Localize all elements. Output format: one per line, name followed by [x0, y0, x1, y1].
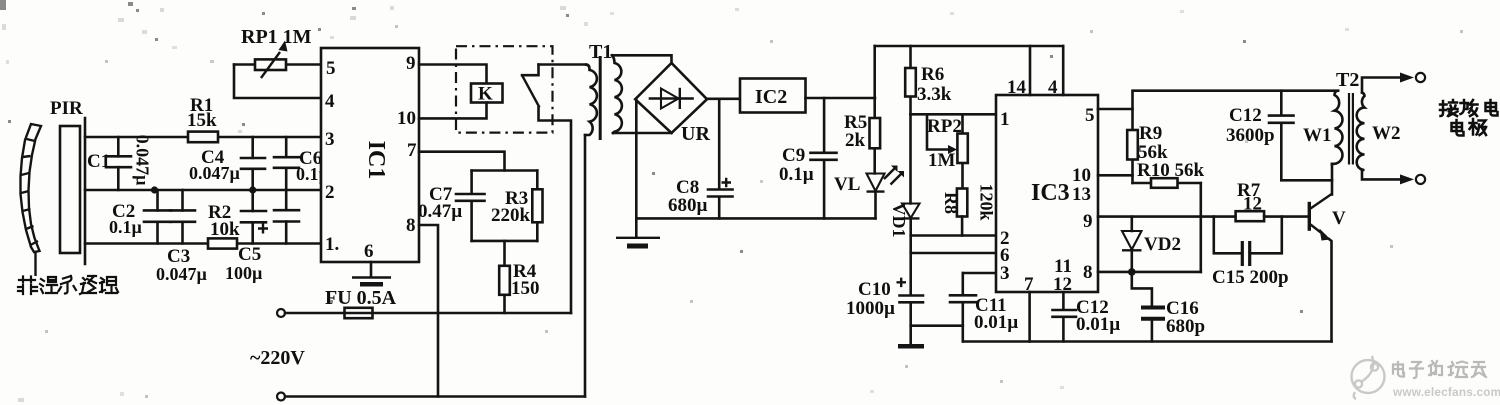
wire IC3 pin7 stub [1028, 292, 1031, 342]
svg-text:0.01µ: 0.01µ [974, 312, 1018, 333]
resistor R5 [844, 98, 880, 174]
svg-text:12: 12 [1243, 194, 1262, 215]
svg-text:4: 4 [325, 91, 335, 112]
wire IC3 pin1 row [911, 113, 997, 116]
capacitor C5 [225, 190, 268, 283]
svg-text:3600p: 3600p [1226, 125, 1275, 146]
fresnel lens [21, 124, 42, 276]
wire IC2 output [806, 97, 876, 100]
wire W2 bottom lead to terminal [1362, 170, 1425, 184]
svg-text:14: 14 [1007, 77, 1027, 98]
svg-text:C15 200p: C15 200p [1212, 267, 1289, 288]
capacitor C4 [189, 137, 265, 190]
svg-text:6: 6 [364, 241, 374, 262]
电 [1452, 120, 1464, 136]
svg-text:V: V [1332, 208, 1346, 229]
svg-text:15k: 15k [187, 110, 217, 131]
wire IC1 pin10 to relay coil [419, 103, 487, 119]
resistor R6 [905, 46, 952, 114]
label 菲涅尔透镜 [18, 276, 118, 294]
fuse FU 0.5A [285, 287, 571, 318]
svg-text:100µ: 100µ [225, 263, 263, 283]
T2 winding W1 [1332, 91, 1342, 164]
svg-text:9: 9 [1083, 211, 1093, 232]
capacitor C8 [668, 99, 733, 219]
wire W2 top lead to terminal [1362, 73, 1425, 93]
svg-text:R8: R8 [941, 192, 961, 214]
svg-text:9: 9 [406, 53, 416, 74]
capacitor C1 [87, 135, 152, 190]
wire riser R5 column [873, 46, 876, 98]
PIR element line [84, 118, 87, 264]
svg-text:3.3k: 3.3k [917, 84, 952, 105]
T1 secondary top lead [612, 55, 672, 63]
svg-text:10: 10 [1072, 165, 1091, 186]
svg-text:C1: C1 [87, 151, 110, 172]
wire IC3 pin3 row [963, 272, 996, 275]
T1 secondary bottom lead [613, 132, 672, 135]
svg-text:680p: 680p [1166, 316, 1205, 337]
svg-text:5: 5 [326, 58, 336, 79]
terminal 220V line2 [277, 393, 285, 401]
wire pin7 to RC box [419, 152, 505, 171]
resistor R4 [499, 241, 539, 313]
svg-text:5: 5 [1085, 105, 1095, 126]
svg-text:R6: R6 [921, 64, 944, 85]
svg-text:C9: C9 [782, 145, 805, 166]
wire IC1 pin9 to relay coil [419, 65, 487, 84]
svg-text:RP1 1M: RP1 1M [241, 26, 312, 48]
wire IC3 pin4 stub [1062, 46, 1065, 95]
wire R10 to pin8 row [1200, 183, 1203, 272]
svg-text:IC2: IC2 [755, 86, 787, 108]
svg-text:IC3: IC3 [1031, 180, 1070, 206]
svg-text:1000µ: 1000µ [846, 298, 895, 319]
wire 220V bottom row [285, 395, 585, 398]
svg-text:3: 3 [1000, 263, 1010, 284]
svg-text:R10 56k: R10 56k [1137, 160, 1204, 181]
ground IC1 pin6 [352, 262, 391, 287]
svg-text:2: 2 [325, 182, 335, 203]
svg-text:0.47µ: 0.47µ [418, 201, 462, 222]
resistor R2 [208, 238, 237, 248]
svg-text:C5: C5 [238, 244, 261, 265]
svg-text:0.047µ: 0.047µ [156, 264, 208, 284]
T2 core [1349, 93, 1353, 165]
svg-text:10k: 10k [210, 219, 240, 240]
ground UR [616, 99, 660, 248]
capacitor C10 [846, 278, 924, 349]
capacitor C12 (0.01u) [1053, 292, 1121, 342]
svg-text:~220V: ~220V [250, 347, 305, 369]
wire C10-C11 ground link [911, 324, 963, 327]
svg-text:1: 1 [1000, 109, 1010, 130]
svg-text:R9: R9 [1139, 123, 1162, 144]
svg-text:T2: T2 [1336, 69, 1359, 91]
node dot pin8/VD2 [1128, 268, 1136, 276]
wire IC3 pin8 row [1098, 271, 1201, 274]
svg-text:VL: VL [834, 174, 860, 195]
IC IC3 [996, 77, 1098, 295]
wire IC3 pin9 row [1098, 215, 1236, 218]
svg-text:1M: 1M [928, 150, 956, 171]
svg-text:C12: C12 [1229, 105, 1262, 126]
op-amp IC1 [321, 48, 419, 262]
wire IC3 pin10/13 row [1098, 174, 1133, 177]
wire ground rail mid [636, 217, 875, 220]
svg-text:0.1µ: 0.1µ [779, 164, 814, 185]
node dot pin2/C4 [249, 186, 256, 193]
resistor R10 [1133, 160, 1205, 188]
capacitor C3 [156, 190, 208, 284]
svg-text:3: 3 [325, 129, 335, 150]
label 接放电 电极 [1440, 100, 1498, 136]
resistor R1 [188, 132, 218, 143]
svg-text:220k: 220k [491, 205, 531, 226]
regulator IC2 [740, 79, 806, 113]
svg-text:2k: 2k [845, 130, 866, 151]
T1 primary bottom lead [584, 135, 587, 397]
svg-text:680µ: 680µ [668, 195, 708, 216]
svg-text:8: 8 [1083, 262, 1093, 283]
PIR sensor body [60, 126, 80, 253]
svg-text:IC1: IC1 [363, 141, 389, 180]
relay boundary dash-dot box [456, 46, 553, 132]
node dot pin2/C2 [151, 186, 158, 193]
svg-text:UR: UR [681, 123, 710, 145]
capacitor C2 [109, 190, 171, 244]
电 [1486, 100, 1498, 116]
capacitor C11 [950, 273, 1018, 342]
capacitor C9 [779, 98, 837, 218]
transformer T2 [1303, 69, 1401, 170]
LED VL [834, 166, 904, 219]
svg-text:8: 8 [406, 215, 416, 236]
T1 secondary winding [612, 55, 622, 133]
diode VD1 [889, 114, 920, 295]
svg-text:120k: 120k [977, 183, 997, 220]
transistor V [1309, 164, 1346, 342]
bridge rectifier UR [635, 63, 710, 145]
T2 winding W2 [1357, 93, 1365, 171]
wire pin3 row [85, 136, 321, 139]
svg-text:0.1µ: 0.1µ [109, 217, 143, 237]
resistor R8 [941, 183, 997, 235]
svg-text:C10: C10 [858, 279, 891, 300]
svg-text:VD1: VD1 [889, 203, 909, 238]
svg-text:10: 10 [397, 108, 416, 129]
svg-text:150: 150 [511, 278, 540, 299]
svg-text:VD2: VD2 [1144, 234, 1181, 255]
resistor R9 [1127, 109, 1168, 183]
wire switch to T1 top [539, 63, 587, 66]
wire top rail to IC3 supply [875, 45, 1063, 48]
capacitor unlabeled (right of C5) [274, 190, 299, 244]
svg-text:W2: W2 [1372, 123, 1401, 144]
capacitor C16 [1132, 272, 1205, 342]
potentiometer RP2 [927, 114, 968, 188]
wire IC3 pin2 row [911, 234, 996, 237]
接 [1440, 100, 1458, 116]
放 [1461, 100, 1478, 116]
potentiometer RP1 [234, 26, 321, 98]
relay coil K [471, 84, 503, 105]
diode VD2 [1122, 217, 1181, 272]
svg-text:1.: 1. [325, 234, 339, 255]
T1 primary winding [585, 65, 597, 136]
svg-text:7: 7 [407, 140, 417, 161]
wire UR to IC2 [707, 98, 740, 101]
svg-text:13: 13 [1072, 184, 1091, 205]
svg-text:W1: W1 [1303, 125, 1332, 146]
wire pin1 row [85, 242, 321, 245]
capacitor C6 [274, 137, 330, 190]
terminal 220V line1 [277, 309, 285, 317]
capacitor C15 bypass [1212, 217, 1289, 288]
wire IC3 pin6 row [911, 252, 996, 255]
svg-text:0.047µ: 0.047µ [132, 135, 152, 187]
wire pin2 row [85, 189, 321, 192]
svg-text:FU 0.5A: FU 0.5A [325, 287, 397, 309]
svg-text:RP2: RP2 [927, 116, 962, 137]
capacitor C7 / resistor R3 box [418, 171, 543, 241]
transformer T1 [585, 41, 672, 397]
T1 core [599, 56, 602, 140]
svg-text:0.01µ: 0.01µ [1076, 314, 1120, 335]
wire bottom ground rail [963, 340, 1332, 343]
capacitor C12 (3600p) [1226, 91, 1332, 181]
resistor R7 [1236, 180, 1308, 221]
watermark text 电子发烧友 [1393, 361, 1486, 378]
svg-text:www.elecfans.com: www.elecfans.com [1392, 385, 1500, 399]
watermark logo [1352, 356, 1385, 399]
wire IC1 pin8 down [419, 225, 438, 397]
wire IC3 pin5 row and top-right rail [1098, 91, 1338, 109]
wire IC3 pin14 stub [1029, 46, 1032, 95]
svg-text:0.047µ: 0.047µ [189, 163, 241, 183]
svg-text:PIR: PIR [50, 98, 83, 119]
svg-text:4: 4 [1048, 77, 1058, 98]
极 [1470, 119, 1487, 135]
relay switch contact [522, 65, 571, 314]
